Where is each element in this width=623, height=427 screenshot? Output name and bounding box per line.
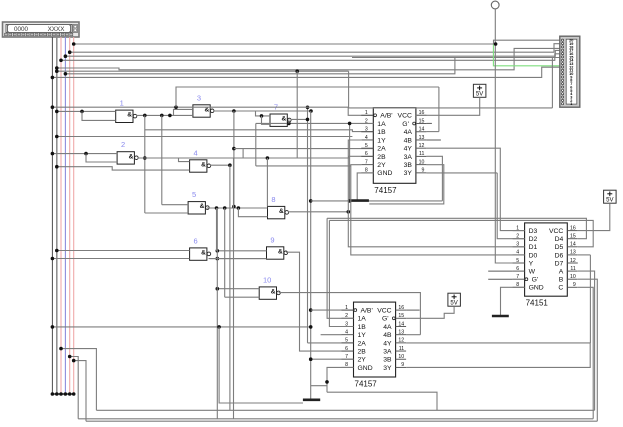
wire U1 1Y to U3 D1: [348, 140, 524, 247]
wire gate8 output: [288, 211, 348, 213]
svg-text:2B: 2B: [377, 154, 386, 161]
svg-text:6: 6: [516, 266, 519, 272]
svg-text:A: A: [559, 269, 564, 276]
wire bus L3 to connector pin4: [65, 50, 560, 56]
wire branch at 200.9: [311, 200, 443, 202]
wire U2 GND to ground: [311, 385, 327, 387]
svg-text:&: &: [201, 250, 206, 257]
wire U2 VCC stub ext: [406, 309, 420, 311]
wire to gate10 top input: [217, 288, 259, 290]
wire +5V P3 to U3 VCC: [578, 203, 610, 230]
svg-text:4A: 4A: [383, 324, 392, 331]
svg-text:9: 9: [422, 168, 425, 174]
wire gate7 output riser: [290, 118, 307, 120]
wire gate10 output to U2 4B: [279, 293, 421, 335]
svg-text:10: 10: [570, 274, 576, 280]
svg-text:Y: Y: [529, 260, 534, 267]
svg-text:1Y: 1Y: [377, 137, 386, 144]
wire terminal jog to connector pin1: [494, 40, 561, 44]
svg-text:14: 14: [419, 127, 425, 133]
svg-text:D3: D3: [529, 228, 538, 235]
svg-text:5V: 5V: [476, 92, 483, 98]
svg-text:16: 16: [398, 305, 404, 311]
wire U1 4Y to U3 D3: [426, 148, 524, 230]
NAND gate 4: [190, 160, 207, 172]
wire LCD data vertical blue: [64, 37, 66, 394]
wire bus L6: [57, 70, 349, 72]
svg-text:10: 10: [398, 354, 404, 360]
wire bus L8 to connector pin9: [52, 67, 560, 77]
wire pink1 bottom jog: [61, 349, 96, 411]
svg-text:3: 3: [365, 127, 368, 133]
LCD display module DIS1: [3, 22, 80, 37]
svg-text:1B: 1B: [358, 324, 367, 331]
svg-text:74157: 74157: [355, 380, 378, 389]
svg-text:D7: D7: [555, 260, 564, 267]
wire gate1 branch vertical: [144, 115, 146, 213]
svg-text:10: 10: [419, 159, 425, 165]
svg-text:W: W: [529, 269, 536, 276]
svg-text:74157: 74157: [374, 186, 397, 195]
wire U1 G15 stub ext: [426, 122, 432, 124]
svg-text:5: 5: [345, 338, 348, 344]
svg-text:9: 9: [270, 235, 274, 244]
svg-text:VCC: VCC: [398, 113, 412, 120]
svg-text:9: 9: [401, 362, 404, 368]
svg-text:2B: 2B: [358, 348, 367, 355]
wire U1 pin2 feed net: [349, 123, 351, 200]
wire U2 GND jog: [327, 367, 354, 392]
svg-text:&: &: [127, 112, 132, 119]
wire gate2 output to U1 2B: [138, 156, 374, 158]
wire gate1 output to gate3: [136, 114, 193, 116]
svg-text:1: 1: [120, 99, 124, 108]
svg-text:D0: D0: [529, 252, 538, 259]
svg-text:3B: 3B: [383, 357, 392, 364]
svg-text:13: 13: [398, 329, 404, 335]
svg-text:3: 3: [197, 93, 201, 102]
svg-text:4B: 4B: [404, 137, 413, 144]
svg-text:1: 1: [345, 305, 348, 311]
wire U3 D6 to loop: [578, 254, 590, 256]
wire gray2 to gate4 bottom input: [57, 167, 190, 170]
wire LCD data vertical gray1: [51, 37, 53, 394]
NAND gate 7: [270, 114, 287, 126]
wire gate2 step to gate4 top input: [179, 158, 190, 162]
wire gate9 output to U2 2B: [286, 252, 354, 351]
svg-text:2: 2: [121, 140, 125, 149]
wire bus L2 to connector pin2: [70, 44, 561, 53]
wire U1 4A over to connector: [426, 131, 439, 133]
svg-text:&: &: [282, 116, 287, 123]
wire U3 Gbar stub: [488, 278, 512, 280]
svg-text:9: 9: [573, 282, 576, 288]
wire branch to gate5 bottom input: [145, 212, 188, 214]
wire U3 GND to ground: [501, 287, 525, 315]
wire U1 4B stub ext: [426, 139, 441, 141]
wire LCD data vertical pink2: [69, 37, 71, 394]
svg-text:13: 13: [419, 135, 425, 141]
svg-text:&: &: [271, 289, 276, 296]
wire h87 long net: [176, 87, 439, 107]
svg-text:C: C: [558, 285, 563, 292]
svg-text:14: 14: [398, 321, 404, 327]
wire gate3 output: [213, 110, 311, 112]
svg-text:12: 12: [570, 258, 576, 264]
svg-text:4: 4: [194, 148, 198, 157]
svg-text:1: 1: [365, 110, 368, 116]
svg-text:11: 11: [419, 151, 424, 157]
svg-text:3Y: 3Y: [383, 365, 392, 372]
wire U1 VCC to +5V P1: [416, 97, 480, 115]
wire branch to gate5 top input: [162, 204, 188, 206]
svg-text:1A: 1A: [358, 316, 367, 323]
svg-text:2A: 2A: [358, 340, 367, 347]
svg-text:10: 10: [263, 275, 271, 284]
svg-text:3A: 3A: [383, 348, 392, 355]
wire green net: [493, 45, 562, 66]
svg-text:6: 6: [365, 151, 368, 157]
wire to gate9 top input: [217, 250, 266, 252]
svg-text:5: 5: [192, 190, 196, 199]
svg-text:GND: GND: [529, 285, 544, 292]
wire long vertical to bottom B2: [233, 158, 235, 419]
wire gray2 branch 136: [57, 136, 353, 138]
svg-text:3B: 3B: [404, 162, 413, 169]
wire LCD data vertical pink3: [73, 37, 75, 394]
NAND gate 9: [267, 247, 284, 259]
wire U2 4Y loop: [406, 343, 590, 368]
wire U1 GND down: [357, 173, 373, 200]
svg-text:4: 4: [365, 135, 368, 141]
svg-text:5: 5: [365, 143, 368, 149]
svg-text:D4: D4: [555, 236, 564, 243]
svg-text:15: 15: [419, 118, 425, 124]
wire bus L5 to connector pin3: [57, 48, 560, 69]
svg-text:14: 14: [570, 242, 576, 248]
svg-text:5V: 5V: [606, 198, 613, 204]
wire gray2 to gate6 top input: [57, 250, 190, 252]
svg-text:8: 8: [271, 195, 275, 204]
wire gray1 to gate6 bottom input: [52, 258, 189, 260]
svg-text:A/B': A/B': [380, 113, 392, 120]
wire gate1 branch to U1 1B: [145, 130, 373, 132]
svg-text:&: &: [201, 161, 206, 168]
wire U2 GND branch right: [327, 392, 437, 410]
svg-text:12: 12: [398, 338, 404, 344]
svg-text:B: B: [559, 277, 564, 284]
svg-text:13: 13: [570, 250, 576, 256]
wire U3 C to bottom bus B2: [578, 287, 593, 419]
wire gate5 branch vertical B: [224, 208, 226, 297]
svg-text:2Y: 2Y: [377, 162, 386, 169]
ground symbol G3: [492, 315, 509, 318]
wire net to U2 select pin1: [310, 111, 312, 399]
junction row at LCD bus bottom: [51, 393, 75, 395]
power +5V P2: [448, 293, 461, 306]
NAND gate 6: [190, 248, 207, 260]
svg-text:4Y: 4Y: [404, 146, 413, 153]
ground symbol G1: [349, 199, 369, 202]
svg-text:GND: GND: [358, 365, 373, 372]
svg-text:D1: D1: [529, 244, 538, 251]
svg-text:4B: 4B: [383, 332, 392, 339]
IC U3 74151: [525, 223, 568, 296]
wire gate1 branch vertical 2: [161, 115, 163, 204]
ground symbol G2: [303, 398, 320, 401]
wire U1 3B loop: [369, 165, 444, 204]
wire LCD data vertical pink1: [60, 37, 62, 394]
NAND gate 10: [259, 287, 276, 299]
wire gate4 out vertical to bottom bus: [229, 165, 231, 410]
wire gray1 branch lower route: [52, 326, 310, 328]
NAND gate 1: [116, 110, 133, 122]
NAND gate 5: [188, 202, 205, 214]
svg-text:G': G': [402, 121, 409, 128]
wire bus d2 left leg to U2 1B: [329, 220, 353, 326]
svg-text:D2: D2: [529, 236, 538, 243]
wire U2 2Y row: [311, 358, 354, 360]
IC U1 74157: [373, 108, 416, 184]
wire bottom bus B1: [96, 409, 594, 411]
wire gate5 out to gate8 input: [207, 207, 268, 209]
wire bus L4 to connector pin5: [61, 54, 560, 61]
svg-text:15: 15: [570, 234, 576, 240]
svg-text:3A: 3A: [404, 154, 413, 161]
wire bus d1 left leg to U2 1A: [327, 218, 353, 318]
wire gate3 step to gate7 input: [256, 111, 271, 116]
wire U1 2Y to U3 D0: [351, 165, 525, 255]
wire terminal T1 to U3 Y: [495, 9, 524, 263]
svg-text:2Y: 2Y: [358, 357, 367, 364]
wire gate6 output: [210, 258, 267, 260]
wire gray2 to gate1 input: [57, 110, 116, 112]
NAND gate 3: [193, 105, 210, 117]
svg-text:7: 7: [516, 274, 519, 280]
svg-text:&: &: [129, 153, 134, 160]
svg-text:4: 4: [345, 329, 348, 335]
svg-text:6: 6: [194, 236, 198, 245]
svg-text:&: &: [200, 203, 205, 210]
input terminal T1: [491, 1, 499, 9]
wire U3 A to bottom bus B1: [578, 271, 595, 410]
wire bottom bus B2: [78, 418, 593, 420]
svg-text:11: 11: [570, 266, 575, 272]
svg-text:1: 1: [570, 102, 572, 106]
wire U1 3A loop to 200.9 line: [426, 156, 442, 201]
wire gate3 branch to U1 2A: [233, 111, 235, 207]
wire bus L7 to connector pin6: [65, 58, 560, 74]
wire U3 B to bottom bus B3: [578, 279, 597, 421]
IC U2 74157: [354, 302, 396, 377]
svg-text:GND: GND: [377, 170, 392, 177]
NAND gate 2: [117, 152, 134, 164]
wire L6 branch vertical: [296, 71, 298, 158]
svg-text:D6: D6: [555, 252, 564, 259]
svg-text:1Y: 1Y: [358, 332, 367, 339]
svg-text:&: &: [278, 248, 283, 255]
wire gate1 out step to gate3 top input: [174, 109, 193, 115]
svg-text:1B: 1B: [377, 129, 386, 136]
wire gate6 out to gate9 bottom input: [209, 258, 267, 260]
svg-text:VCC: VCC: [377, 308, 391, 315]
svg-text:11: 11: [399, 346, 404, 352]
svg-text:74151: 74151: [526, 299, 549, 308]
wire gate5 branch vertical A: [216, 208, 218, 289]
wire gate4 output: [210, 164, 230, 166]
wire gray1 to U1 pin1: [52, 106, 348, 108]
svg-text:A/B': A/B': [361, 308, 373, 315]
svg-text:6: 6: [345, 346, 348, 352]
wire gray1 to gate2 input: [52, 153, 117, 155]
svg-text:5V: 5V: [450, 301, 457, 307]
svg-text:0000: 0000: [14, 26, 29, 33]
svg-text:&: &: [279, 208, 284, 215]
svg-text:1A: 1A: [377, 121, 386, 128]
wire U3 W stub: [488, 270, 512, 272]
svg-text:16: 16: [570, 225, 576, 231]
svg-text:12: 12: [419, 143, 425, 149]
wire bus d1 to U3 D4: [327, 218, 586, 238]
svg-text:4A: 4A: [404, 129, 413, 136]
svg-text:G': G': [382, 316, 389, 323]
svg-text:5: 5: [516, 258, 519, 264]
wire U1 3Y to U3 D2: [426, 172, 497, 174]
svg-text:XXXX: XXXX: [48, 26, 66, 33]
svg-text:VCC: VCC: [549, 228, 563, 235]
svg-text:3Y: 3Y: [404, 170, 413, 177]
wire bus L1: [74, 43, 496, 45]
svg-text:7: 7: [365, 159, 368, 165]
wire pink3 bottom jog: [74, 361, 86, 422]
wire bus d2 to U3 D5: [329, 220, 593, 246]
wire bottom bus B3: [86, 420, 597, 422]
wire U2 1Y stub: [321, 334, 342, 336]
svg-text:2A: 2A: [377, 146, 386, 153]
wire branch vertical to bottom: [216, 289, 218, 419]
connector J1 20-pin header: [560, 36, 580, 107]
svg-text:G': G': [532, 277, 539, 284]
wire to gate10 bottom input: [225, 296, 260, 298]
power +5V P1: [473, 84, 486, 97]
wire pink2 bottom jog: [70, 357, 79, 419]
svg-text:4Y: 4Y: [383, 340, 392, 347]
svg-text:15: 15: [398, 313, 404, 319]
power +5V P3: [604, 190, 617, 203]
NAND gate 8: [268, 206, 285, 218]
wire +5V P2 to U2 G15: [406, 306, 454, 318]
wire LCD data vertical gray2: [56, 37, 58, 394]
svg-text:D5: D5: [555, 244, 564, 251]
